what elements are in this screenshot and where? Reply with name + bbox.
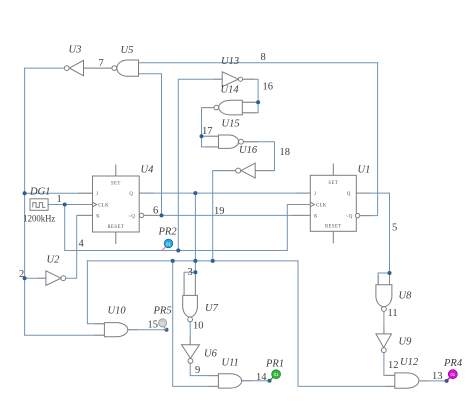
junction U8 input tie (388, 271, 392, 275)
svg-text:15: 15 (148, 320, 159, 331)
wire net11 U8.out to U9.in (383, 312, 385, 334)
svg-text:16: 16 (263, 82, 274, 93)
inverter U9 (pointing down) (376, 334, 392, 348)
svg-text:RESET: RESET (107, 225, 124, 230)
svg-text:U1: U1 (358, 165, 371, 176)
svg-text:PR1: PR1 (265, 359, 284, 370)
pin stub U16 input (255, 170, 274, 172)
svg-text:~Q: ~Q (346, 215, 353, 220)
pin stub U11 output (242, 380, 251, 382)
inverter U13 (facing right) (222, 72, 238, 87)
probe PR5 (gray) (159, 319, 167, 330)
svg-text:U15: U15 (222, 119, 240, 130)
svg-text:CLK: CLK (316, 204, 327, 209)
net number labels (19, 52, 443, 383)
flip-flop U1 (310, 164, 360, 244)
NAND U5 (facing left) (117, 60, 139, 76)
junction rail/J(U4) (23, 191, 27, 195)
svg-text:14: 14 (256, 372, 267, 383)
svg-text:SET: SET (111, 182, 121, 187)
svg-text:01: 01 (450, 372, 455, 377)
svg-text:U8: U8 (399, 291, 413, 302)
svg-text:PR5: PR5 (153, 306, 172, 317)
inverter U16 (facing left) (241, 163, 255, 178)
svg-text:Q: Q (129, 192, 133, 197)
wire net6 riser up to U5.in2 (139, 74, 162, 216)
wire net1 branch up to U13 input (178, 79, 222, 250)
inverter U3 (facing left) (69, 60, 83, 75)
wire U3.out to left rail (25, 67, 65, 69)
wire net J(U4) horizontal (25, 192, 93, 194)
junction net6/net19 (160, 213, 164, 217)
svg-text:K: K (96, 214, 100, 219)
junction net17 (200, 134, 204, 138)
wire net Q(U4) to J(U1) (139, 192, 310, 194)
svg-text:U12: U12 (400, 357, 419, 368)
wire U15 top input stub (202, 135, 219, 137)
wire net13 U12 output to probe PR4 (419, 380, 447, 382)
wire branch down to U11 bottom input (173, 261, 219, 387)
junction distribution/U7 drop (193, 259, 197, 263)
probe PR2 (blue) (162, 239, 173, 250)
svg-text:2: 2 (19, 269, 24, 280)
pin stub U13 output (243, 78, 254, 80)
pin stub U15 output (243, 141, 258, 143)
pin stub Q U1 (356, 192, 370, 194)
svg-text:U3: U3 (69, 45, 82, 56)
NAND U14 (facing left) (219, 100, 243, 115)
pin stub ~Q U1 (360, 215, 372, 217)
svg-text:18: 18 (280, 147, 291, 158)
svg-text:01: 01 (274, 372, 279, 377)
NAND U8 (pointing down) (376, 285, 392, 307)
pin stub U13 input (214, 78, 222, 80)
wire left rail down to U10 bottom input (25, 278, 105, 335)
link wire net7 U5.out to U3.in (84, 67, 112, 69)
svg-text:CLK: CLK (98, 204, 109, 209)
wire end dot at PR5 (165, 328, 169, 332)
svg-text:U6: U6 (204, 349, 218, 360)
wire net3 drop from Q-J wire to U7 inputs (194, 193, 196, 272)
junction rail/U2 input (23, 276, 27, 280)
svg-text:U2: U2 (47, 255, 61, 266)
pin stub U12 output (419, 380, 428, 382)
AND U10 (104, 323, 127, 337)
wire net19 to U1 K (162, 214, 311, 216)
probe PR4 (magenta) (447, 370, 458, 381)
wire net10 U7.out to U6.in (189, 322, 191, 345)
svg-text:8: 8 (261, 52, 266, 63)
gray pin stub segments (38, 68, 428, 386)
pin stubs U12 inputs (386, 374, 395, 376)
pin stub U14 output (204, 107, 214, 109)
junction distribution/U11 branch (171, 259, 175, 263)
AND U12 (395, 373, 419, 388)
pin stub U16 output (215, 170, 236, 172)
pin stub CLK U1 (288, 204, 310, 206)
svg-text:U4: U4 (141, 165, 155, 176)
junction net1/U13 branch (176, 249, 180, 253)
svg-text:1200kHz: 1200kHz (23, 215, 55, 225)
GATES (46, 60, 419, 388)
wire net14 U11 output to probe PR1 (242, 380, 270, 382)
reference designator labels (29, 45, 463, 370)
NAND U15 (facing right) (219, 135, 239, 148)
pin stubs U8 (377, 275, 379, 285)
svg-text:19: 19 (214, 206, 225, 217)
clock source DG1 (30, 199, 48, 211)
inverter U2 (facing right) (46, 271, 61, 286)
svg-text:~Q: ~Q (128, 215, 135, 220)
junction net1 at DG1 output (63, 203, 67, 207)
AND U11 (218, 374, 241, 388)
svg-text:K: K (314, 215, 318, 220)
wire net6 U4 ~Q to U5 lower input riser (144, 214, 162, 216)
pin stub ~Q U4 (144, 214, 158, 216)
svg-text:01: 01 (166, 241, 171, 246)
svg-text:5: 5 (392, 223, 397, 234)
junction net16 (256, 100, 260, 104)
junction Q(U4) net drop (193, 191, 197, 195)
wire net1 branch down and right to U1 CLK riser (65, 205, 288, 251)
svg-text:1: 1 (57, 194, 62, 205)
wire U8 input tie loop (378, 273, 389, 285)
wire branch down to U10 top input (87, 261, 104, 324)
wire net15 U10 output to probe PR5 (128, 329, 167, 331)
wire net8 top horizontal U5.in1 to right vertical (139, 62, 378, 64)
wire U2 input stub (25, 277, 46, 279)
wire net 261 horizontal (Q net distribution) (87, 260, 298, 262)
pin stubs U7 (183, 275, 185, 295)
pin stub K U4 (79, 214, 93, 216)
pin stubs U11 inputs (209, 375, 218, 377)
svg-text:U10: U10 (108, 306, 127, 317)
svg-text:10: 10 (193, 321, 204, 332)
pin stub Q U4 (139, 192, 153, 194)
pin stubs U15 inputs (206, 135, 219, 137)
svg-text:17: 17 (202, 126, 213, 137)
wire net17 U14.out to U15 inputs (202, 108, 214, 147)
flip-flop U4 (93, 165, 144, 245)
wire U14 bottom input stub (242, 112, 258, 114)
svg-text:U11: U11 (222, 358, 239, 369)
wire U7 input tie loop (184, 272, 195, 295)
inverter U6 (pointing down) (182, 345, 200, 359)
probe PR1 (green) (270, 370, 281, 381)
wire net12 U9.out to U12 top input (384, 353, 395, 376)
svg-text:U14: U14 (221, 85, 240, 96)
svg-text:U5: U5 (121, 45, 134, 56)
wire U15 bottom input stub (202, 146, 219, 148)
pin stub J U1 (296, 192, 310, 194)
pin stub U10 output (128, 329, 137, 331)
svg-text:J: J (96, 192, 98, 197)
wire net9 U6.out to U11 top input (190, 364, 218, 376)
wire end dot at PR1 (268, 379, 272, 383)
junction U7 input tie (193, 270, 197, 274)
wire net5 Q(U1) down to U8 (356, 193, 389, 273)
wire net18 U15.out to U16 input (243, 142, 274, 171)
svg-text:U9: U9 (399, 337, 413, 348)
svg-text:SET: SET (328, 181, 338, 186)
pin stub K U1 (293, 214, 310, 216)
svg-text:U13: U13 (221, 56, 239, 67)
wire left rail down to J(U4) DG1 level (24, 68, 26, 193)
wire U8 right input stub (389, 273, 391, 285)
svg-text:7: 7 (99, 58, 104, 69)
wire U16 output down to distribution wire (213, 171, 236, 261)
wire net4 U2.out up to K(U4) (66, 215, 93, 278)
svg-text:DG1: DG1 (29, 187, 50, 198)
wire U7 right input stub (194, 272, 196, 295)
svg-text:RESET: RESET (325, 224, 342, 229)
wire net7 U5.out to U3.in (84, 67, 112, 69)
pin stub U6 input (189, 337, 191, 345)
wire left rail down to U2 input (24, 193, 26, 278)
svg-text:13: 13 (432, 371, 443, 382)
svg-text:12: 12 (388, 360, 399, 371)
pin stubs U14 inputs (242, 101, 256, 103)
svg-text:11: 11 (388, 308, 398, 319)
NAND U7 (pointing down) (183, 295, 198, 317)
wire right branch down to U12 bottom input (298, 261, 395, 387)
pin stub U2 input (38, 277, 46, 279)
wire net1 DG1 out to U4 CLK (48, 204, 92, 206)
svg-text:U7: U7 (205, 303, 219, 314)
wire net16 U13.out to U14 inputs (243, 79, 259, 113)
svg-text:3: 3 (188, 267, 193, 278)
wire U14 top input stub (242, 101, 258, 103)
svg-text:9: 9 (195, 365, 200, 376)
svg-text:4: 4 (79, 239, 85, 250)
wire net1 riser up to U1 CLK (287, 205, 310, 251)
pin stub CLK U4 (79, 204, 93, 206)
svg-text:U16: U16 (239, 145, 258, 156)
svg-text:J: J (314, 192, 316, 197)
pin stubs U10 inputs (95, 323, 104, 325)
wire net8 right vertical down to U1 ~Q (360, 63, 378, 216)
pin stub J U4 (79, 192, 93, 194)
pin stub U9 input (383, 326, 385, 334)
wire end dot at PR4 (445, 379, 449, 383)
svg-text:Q: Q (347, 192, 351, 197)
svg-text:01: 01 (160, 321, 165, 326)
svg-text:PR2: PR2 (158, 227, 178, 238)
svg-text:6: 6 (153, 206, 158, 217)
junction distribution/U16 output (211, 259, 215, 263)
svg-text:PR4: PR4 (443, 358, 463, 369)
